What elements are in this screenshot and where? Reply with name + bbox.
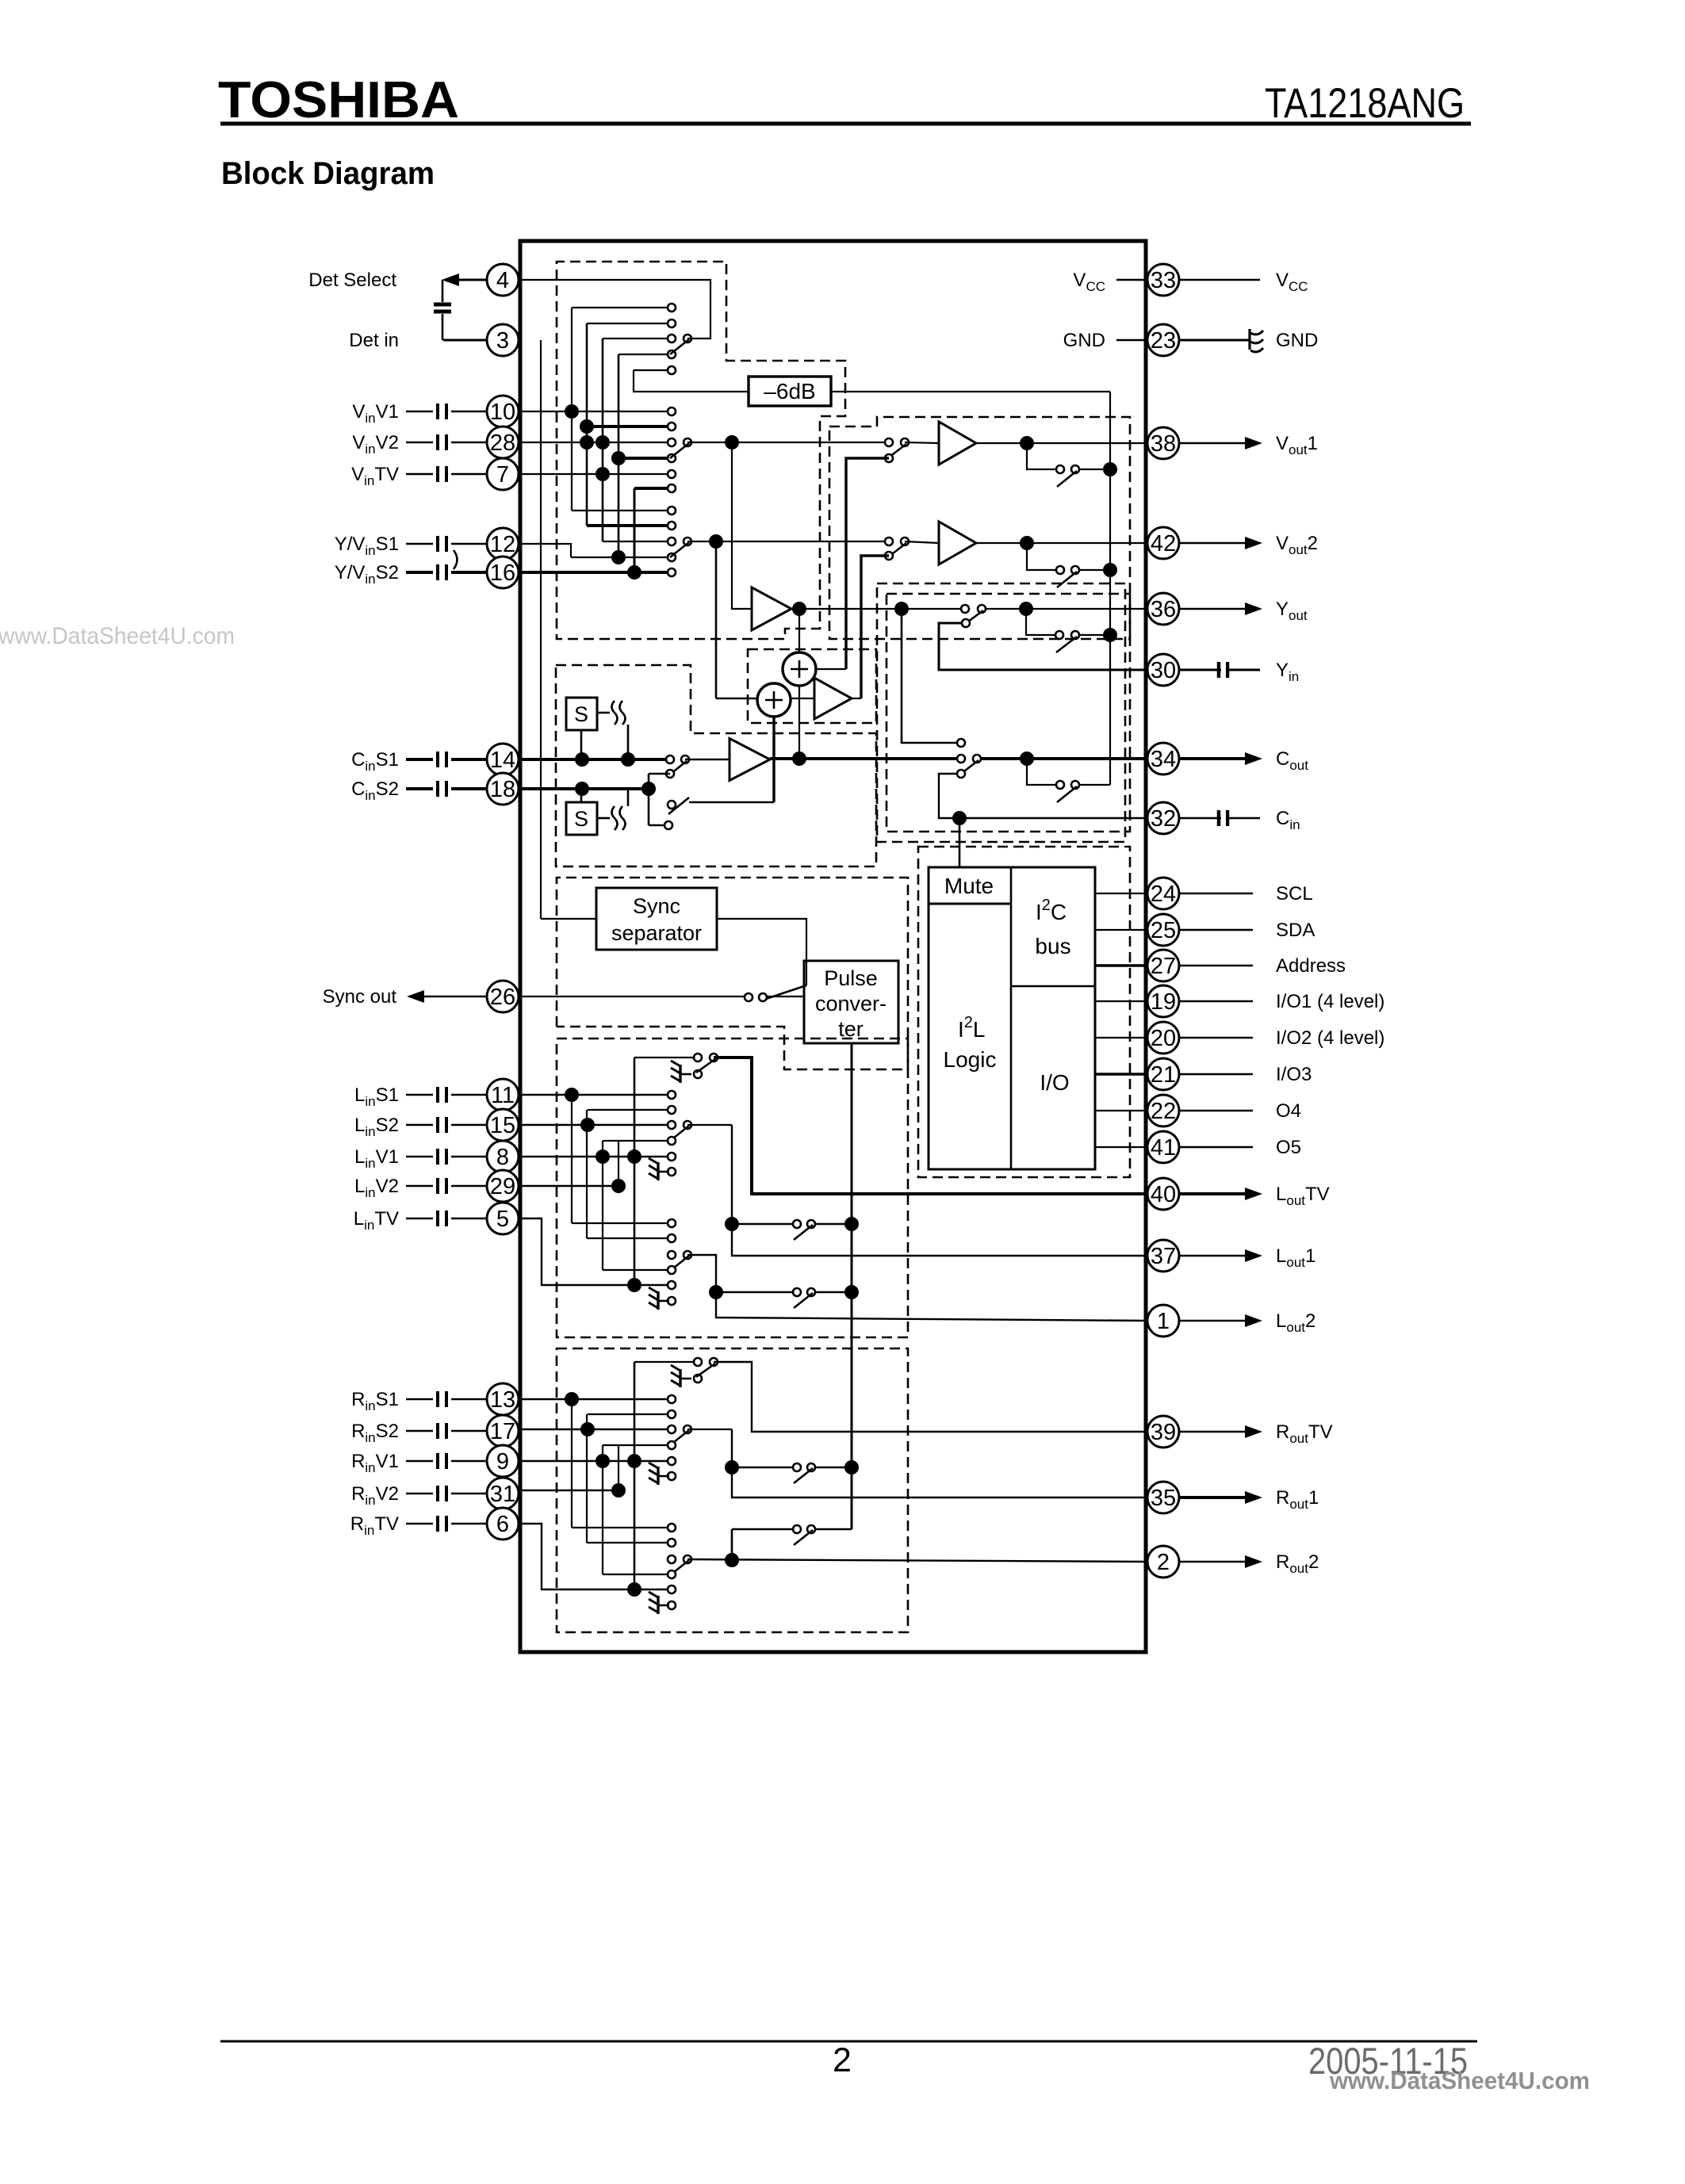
right pin 23 lead/label <box>1179 339 1250 342</box>
svg-text:33: 33 <box>1151 268 1176 293</box>
pin 33 <box>1147 264 1179 296</box>
audio row2 <box>588 1109 672 1111</box>
right pin 34 lead/label <box>1179 757 1245 760</box>
cin s2 line <box>520 787 649 790</box>
left pin 16 lead/label <box>406 571 433 574</box>
svg-text:GND: GND <box>1063 330 1105 351</box>
audio inV1 row <box>520 1156 672 1157</box>
right pin 39 lead/label <box>1179 1431 1245 1432</box>
pin 36 <box>1147 593 1179 625</box>
yout tap to cout switch <box>902 609 956 743</box>
pin 23 <box>1147 324 1179 356</box>
audio TV row <box>520 1218 672 1285</box>
pin3 long vertical to sync separator <box>540 340 542 919</box>
right pin 36 lead/label <box>1179 608 1245 610</box>
y-amp U3 <box>752 587 791 630</box>
audio TV bypass switch <box>634 1057 693 1058</box>
left pin 28 lead/label <box>406 442 433 444</box>
block S1 <box>566 698 597 730</box>
svg-text:VinV1: VinV1 <box>352 401 399 426</box>
svg-text:7: 7 <box>496 462 509 488</box>
svg-text:26: 26 <box>490 985 515 1010</box>
audio out1 mute switch <box>732 1223 792 1226</box>
svg-text:40: 40 <box>1151 1182 1176 1207</box>
c bank2 contacts <box>668 801 676 809</box>
pin 9 <box>487 1445 519 1477</box>
pin 7 <box>487 458 519 490</box>
svg-text:34: 34 <box>1151 747 1176 772</box>
audio row2 <box>588 1413 672 1415</box>
svg-text:RinTV: RinTV <box>350 1513 399 1538</box>
svg-text:LinTV: LinTV <box>354 1208 399 1233</box>
svg-text:ter: ter <box>838 1017 864 1041</box>
svg-text:www.DataSheet4U.com: www.DataSheet4U.com <box>0 623 235 649</box>
left pin 14 lead/label <box>406 758 433 761</box>
cout mute switch <box>1027 759 1055 785</box>
block S2 <box>566 802 597 835</box>
vout2 line to pin 42 <box>976 542 1147 544</box>
svg-text:35: 35 <box>1151 1486 1176 1511</box>
footer rule <box>220 2041 1477 2043</box>
right pin 32 lead/label <box>1179 817 1260 819</box>
pulse converter output bus <box>851 1043 853 1529</box>
audio TV bypass switch <box>634 1361 693 1363</box>
pin 4 <box>487 264 519 296</box>
svg-text:Det Select: Det Select <box>308 270 396 291</box>
sync out switch <box>766 985 806 999</box>
sum1 composite adder <box>757 683 791 717</box>
svg-text:10: 10 <box>490 400 515 425</box>
svg-text:LinS2: LinS2 <box>354 1115 399 1139</box>
pin 37 <box>1147 1240 1179 1272</box>
svg-text:42: 42 <box>1151 531 1176 557</box>
svg-text:CinS2: CinS2 <box>351 778 399 803</box>
pin 19 <box>1147 985 1179 1017</box>
svg-text:RinV2: RinV2 <box>351 1483 399 1508</box>
svg-text:I/O3: I/O3 <box>1276 1064 1312 1085</box>
sync separator output to switch <box>717 919 806 985</box>
logic block pin stubs <box>1095 893 1147 894</box>
right pin 42 lead/label <box>1179 542 1245 544</box>
dashed box video amps <box>829 417 1130 639</box>
svg-text:3: 3 <box>496 328 509 354</box>
left pin 6 lead/label <box>406 1523 433 1525</box>
audio inS2 row / bank1 arm <box>520 1429 672 1430</box>
svg-text:O5: O5 <box>1276 1137 1301 1158</box>
right pin 38 lead/label <box>1179 442 1245 444</box>
audio outTV route <box>714 1362 1147 1432</box>
svg-text:29: 29 <box>490 1174 515 1199</box>
audio outTV route <box>714 1058 1147 1194</box>
pin 24 <box>1147 878 1179 909</box>
pin12 jog <box>520 544 571 557</box>
left pin 11 lead/label <box>406 1094 433 1096</box>
svg-text:separator: separator <box>611 921 702 945</box>
svg-text:6: 6 <box>496 1512 509 1537</box>
audio matrix verticals <box>571 1399 573 1528</box>
pin 12 <box>487 528 519 560</box>
pin 40 <box>1147 1178 1179 1210</box>
v1 switch arm out <box>684 438 691 446</box>
left pin 31 lead/label <box>406 1493 433 1495</box>
audio L out2 route <box>687 1255 1147 1321</box>
right pin 2 lead/label <box>1179 1561 1245 1562</box>
right pin 40 lead/label <box>1179 1192 1245 1195</box>
svg-text:CinS1: CinS1 <box>351 749 399 774</box>
left pin 9 lead/label <box>406 1460 433 1463</box>
svg-text:Sync out: Sync out <box>323 986 397 1008</box>
svg-text:16: 16 <box>490 560 515 586</box>
pin 2 <box>1147 1546 1179 1578</box>
svg-text:SCL: SCL <box>1276 883 1313 905</box>
svg-text:I/O: I/O <box>1040 1070 1069 1095</box>
svg-text:28: 28 <box>490 430 515 456</box>
svg-text:O4: O4 <box>1276 1100 1301 1122</box>
composite amp U4 <box>814 678 852 719</box>
right pin 41 lead/label <box>1179 1146 1253 1149</box>
svg-text:23: 23 <box>1151 328 1176 354</box>
right pin 25 lead/label <box>1179 929 1253 931</box>
cin feed from pin 32 <box>939 774 1147 818</box>
pin 6 <box>487 1508 519 1540</box>
svg-text:14: 14 <box>490 748 515 773</box>
cout line to pin 34 <box>770 757 956 760</box>
svg-text:–6dB: –6dB <box>764 379 815 404</box>
audio inS1 row <box>520 1398 672 1400</box>
c amp U5 <box>685 759 730 761</box>
right pin 27 lead/label <box>1179 965 1253 967</box>
svg-text:5: 5 <box>496 1207 509 1232</box>
svg-text:TA1218ANG: TA1218ANG <box>1265 80 1465 127</box>
sync separator input <box>541 918 596 920</box>
svg-text:18: 18 <box>490 777 515 802</box>
v-amp1 mute switch <box>1027 443 1055 469</box>
v-amp1 select switch <box>885 438 893 446</box>
audio R out2 route <box>687 1559 1147 1562</box>
pin 3 <box>487 324 519 356</box>
Det select-in coupling wire <box>442 280 444 302</box>
audio out1 route <box>732 1429 1147 1497</box>
pin 29 <box>487 1170 519 1202</box>
pin 11 <box>487 1079 519 1111</box>
pin 26 <box>487 981 519 1012</box>
svg-text:12: 12 <box>490 532 515 557</box>
svg-text:VinTV: VinTV <box>351 464 399 488</box>
squiggle filter S1 <box>612 701 618 725</box>
right pin 24 lead/label <box>1179 893 1253 895</box>
right pin 19 lead/label <box>1179 1000 1253 1003</box>
right pin 21 lead/label <box>1179 1073 1253 1076</box>
audio bank2 ground <box>668 1601 676 1609</box>
cout select switch <box>957 755 965 763</box>
right pin 37 lead/label <box>1179 1255 1245 1256</box>
v2 switch arm out <box>684 537 691 545</box>
svg-text:25: 25 <box>1151 918 1176 943</box>
sum2 chroma adder <box>783 652 816 686</box>
v-amp2 mute switch <box>1027 543 1055 570</box>
svg-text:2: 2 <box>1157 1550 1170 1575</box>
svg-text:LinV2: LinV2 <box>354 1176 399 1200</box>
right pin 30 lead/label <box>1179 669 1260 671</box>
pin 14 <box>487 744 519 775</box>
block -6dB <box>749 377 831 406</box>
svg-text:24: 24 <box>1151 882 1176 907</box>
pin 42 <box>1147 527 1179 559</box>
svg-text:17: 17 <box>490 1419 515 1444</box>
right pin 33 lead/label <box>1179 279 1260 281</box>
svg-text:RinV1: RinV1 <box>351 1451 399 1475</box>
svg-text:www.DataSheet4U.com: www.DataSheet4U.com <box>1329 2067 1590 2094</box>
svg-text:2: 2 <box>833 2041 852 2079</box>
pin 27 <box>1147 950 1179 981</box>
-6dB feed <box>634 370 749 392</box>
ground squiggle at pin 23 <box>1248 329 1250 350</box>
left pin 7 lead/label <box>406 473 433 476</box>
vout1 line to pin 38 <box>976 442 1147 444</box>
pin 10 <box>487 396 519 427</box>
svg-text:Address: Address <box>1276 955 1346 977</box>
audio inV1 row <box>520 1460 672 1462</box>
y-amp feed <box>732 442 752 609</box>
pin 30 <box>1147 654 1179 686</box>
dashed box i2c logic <box>918 847 1130 1177</box>
left pin 10 lead/label <box>406 411 433 413</box>
pin 22 <box>1147 1095 1179 1126</box>
audio row4 <box>603 1444 672 1446</box>
pin 39 <box>1147 1416 1179 1448</box>
cin s1 line <box>520 758 666 761</box>
svg-text:Mute: Mute <box>944 874 994 898</box>
svg-text:bus: bus <box>1035 934 1070 958</box>
v-amp2 select switch <box>885 537 893 545</box>
pin 35 <box>1147 1482 1179 1513</box>
header rule <box>220 122 1471 126</box>
dashed box input matrix <box>557 262 845 639</box>
det switch <box>684 335 691 342</box>
c select switch <box>666 755 674 763</box>
pin 34 <box>1147 743 1179 775</box>
svg-text:RinS2: RinS2 <box>351 1421 399 1445</box>
svg-text:19: 19 <box>1151 989 1176 1015</box>
left pin 4 lead/label <box>455 279 487 281</box>
svg-text:conver-: conver- <box>815 992 887 1016</box>
svg-text:39: 39 <box>1151 1420 1176 1445</box>
IC boundary <box>520 241 1146 1652</box>
sync out line pin 26 <box>520 996 744 997</box>
audio row4 <box>603 1140 672 1142</box>
v-amp2 U2 <box>905 541 939 543</box>
audio inS1 row <box>520 1094 672 1096</box>
audio bank2 rows <box>572 1222 672 1224</box>
svg-text:9: 9 <box>496 1449 509 1474</box>
pin 18 <box>487 773 519 805</box>
left pin 18 lead/label <box>406 787 433 790</box>
block sync separator <box>596 888 717 950</box>
capacitor on pin 32 lead <box>1217 810 1221 826</box>
left pin 29 lead/label <box>406 1185 433 1188</box>
mute line from pin32 node <box>959 818 961 867</box>
capacitor on pin 30 lead <box>1217 662 1221 678</box>
pin 31 <box>487 1478 519 1509</box>
dashed box audio R <box>557 1348 908 1632</box>
svg-text:31: 31 <box>490 1482 515 1507</box>
left pin 17 lead/label <box>406 1430 433 1432</box>
sum1 bottom riser <box>772 717 775 802</box>
audio inV2 feed <box>520 1185 618 1187</box>
audio R out2 mute switch <box>731 1529 733 1560</box>
audio bank2 rows <box>572 1527 672 1528</box>
pin 13 <box>487 1383 519 1415</box>
svg-text:VinV2: VinV2 <box>352 432 399 457</box>
dashed box chroma section <box>556 665 876 866</box>
yin feed from pin 30 <box>939 623 1147 670</box>
squiggle filter S2 <box>612 806 618 830</box>
right pin 22 lead/label <box>1179 1110 1253 1112</box>
svg-text:SDA: SDA <box>1276 920 1315 941</box>
svg-text:I/O2 (4 level): I/O2 (4 level) <box>1276 1027 1384 1049</box>
svg-text:S: S <box>574 807 588 831</box>
pin 8 <box>487 1141 519 1172</box>
pin 16 <box>487 557 519 588</box>
svg-text:TOSHIBA: TOSHIBA <box>218 71 459 128</box>
video matrix rows <box>572 307 672 308</box>
audio inS2 row / bank1 arm <box>520 1124 672 1126</box>
svg-text:20: 20 <box>1151 1026 1176 1051</box>
paren mark near Y/Vin caps <box>454 550 458 569</box>
svg-text:Det in: Det in <box>349 330 399 351</box>
-6dB output bus <box>831 391 1110 392</box>
svg-text:S: S <box>574 702 588 726</box>
right pin 35 lead/label <box>1179 1496 1245 1499</box>
block pulse converter <box>804 961 898 1043</box>
left pin 5 lead/label <box>406 1218 433 1220</box>
svg-text:LinS1: LinS1 <box>354 1084 399 1109</box>
pin 5 <box>487 1203 519 1234</box>
svg-text:4: 4 <box>496 268 509 293</box>
audio bank2 ground <box>668 1297 676 1305</box>
video matrix verticals <box>571 308 573 511</box>
v-amp1 U1 <box>905 442 939 443</box>
left pin 13 lead/label <box>406 1398 433 1401</box>
audio bank1 ground <box>668 1168 676 1176</box>
pin 21 <box>1147 1058 1179 1090</box>
pin 15 <box>487 1109 519 1141</box>
yout mute switch <box>1026 609 1055 635</box>
pin 25 <box>1147 914 1179 946</box>
audio matrix verticals <box>571 1095 573 1223</box>
svg-text:Logic: Logic <box>944 1047 997 1072</box>
svg-text:13: 13 <box>490 1387 515 1413</box>
audio out1 route <box>732 1125 1147 1256</box>
pin 41 <box>1147 1131 1179 1163</box>
audio out1 mute switch <box>732 1467 792 1469</box>
svg-text:GND: GND <box>1276 330 1318 351</box>
pin 20 <box>1147 1022 1179 1054</box>
left pin 12 lead/label <box>406 543 433 545</box>
audio inV2 feed <box>520 1490 618 1491</box>
dashed box sum section <box>748 649 876 723</box>
pin 28 <box>487 426 519 458</box>
pin 17 <box>487 1415 519 1447</box>
svg-text:Pulse: Pulse <box>824 966 878 990</box>
svg-text:32: 32 <box>1151 806 1176 832</box>
pin 38 <box>1147 427 1179 459</box>
svg-text:Block Diagram: Block Diagram <box>221 156 435 191</box>
left pin 8 lead/label <box>406 1156 433 1158</box>
svg-text:11: 11 <box>491 1083 515 1108</box>
capacitor between Det Select and Det in <box>434 303 451 307</box>
yout select switch <box>961 605 969 613</box>
svg-text:21: 21 <box>1151 1062 1176 1088</box>
svg-text:22: 22 <box>1151 1099 1176 1124</box>
svg-text:1: 1 <box>1157 1309 1170 1334</box>
left pin 3 lead/label <box>443 339 487 342</box>
audio TV row <box>520 1524 672 1589</box>
svg-text:Sync: Sync <box>633 894 680 918</box>
pin 32 <box>1147 802 1179 834</box>
audio bank1 ground <box>668 1472 676 1480</box>
svg-text:38: 38 <box>1151 431 1176 457</box>
svg-text:I/O1 (4 level): I/O1 (4 level) <box>1276 991 1384 1012</box>
dashed box yc out inner <box>887 594 1130 832</box>
svg-text:36: 36 <box>1151 597 1176 622</box>
svg-text:LinV1: LinV1 <box>354 1146 399 1171</box>
svg-text:27: 27 <box>1151 954 1176 979</box>
left pin 15 lead/label <box>406 1124 433 1126</box>
block i2c logic <box>929 867 1095 1169</box>
svg-text:8: 8 <box>496 1145 509 1170</box>
pin 1 <box>1147 1305 1179 1337</box>
yout line to pin 36 <box>791 608 960 610</box>
svg-text:30: 30 <box>1151 658 1176 683</box>
audio L out2 mute switch <box>716 1291 792 1294</box>
svg-text:15: 15 <box>490 1113 515 1138</box>
right pin 1 lead/label <box>1179 1320 1245 1321</box>
dashed box audio L <box>557 1038 908 1337</box>
left pin 26 lead/label <box>420 996 487 997</box>
svg-text:RinS1: RinS1 <box>351 1389 399 1413</box>
dashed box sync <box>557 878 908 1069</box>
right pin 20 lead/label <box>1179 1037 1253 1039</box>
svg-text:I2C: I2C <box>1036 897 1067 924</box>
svg-text:41: 41 <box>1151 1135 1176 1161</box>
svg-text:37: 37 <box>1151 1244 1176 1269</box>
dashed box yc out outer <box>877 583 1125 842</box>
